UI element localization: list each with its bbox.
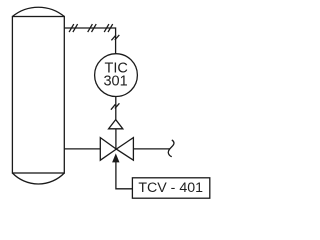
wire: signal line from TCV box with elbow	[116, 162, 132, 189]
wire: actuator stem to valve center	[115, 129, 117, 149]
vessel V1 top head	[12, 7, 64, 16]
svg-text:TCV - 401: TCV - 401	[138, 180, 203, 196]
actuator triangle of valve	[109, 120, 123, 129]
instrument balloon TIC 301	[95, 54, 138, 97]
break mark // no.1 on top pipe	[69, 24, 78, 32]
instrument tag text 301	[103, 74, 127, 90]
label box TCV-401	[132, 178, 209, 198]
svg-text:301: 301	[103, 74, 127, 90]
control valve body (bowtie)	[100, 138, 133, 161]
vessel V1 body	[12, 17, 64, 174]
instrument tag text TIC	[105, 60, 128, 76]
break mark // no.2 on top pipe	[88, 24, 97, 32]
vessel V1 bottom head	[12, 173, 64, 184]
wire: process pipe vessel to valve	[64, 148, 100, 150]
wire: vertical line circle-bottom to actuator	[115, 97, 117, 120]
label text TCV - 401	[138, 180, 203, 196]
break mark // on lower vertical line	[111, 103, 120, 109]
wire: process pipe valve to line break	[133, 148, 169, 150]
pipe line-break squiggle	[168, 140, 174, 157]
break mark // on upper vertical line	[111, 35, 119, 40]
arrowhead pointing to valve	[112, 153, 119, 162]
break mark // no.3 on top pipe	[104, 24, 113, 32]
wire: top pipe from vessel with corner down	[64, 28, 115, 54]
